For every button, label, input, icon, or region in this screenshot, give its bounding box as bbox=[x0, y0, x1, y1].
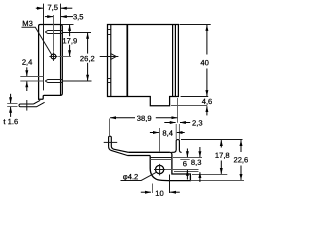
svg-text:2,4: 2,4 bbox=[22, 58, 33, 67]
svg-text:38,9: 38,9 bbox=[137, 114, 152, 123]
svg-text:40: 40 bbox=[200, 58, 208, 67]
svg-text:3,5: 3,5 bbox=[73, 12, 84, 21]
svg-text:22,6: 22,6 bbox=[233, 155, 248, 164]
svg-text:2,3: 2,3 bbox=[192, 119, 203, 128]
svg-text:17,8: 17,8 bbox=[215, 151, 230, 160]
svg-text:17,9: 17,9 bbox=[62, 36, 77, 45]
svg-text:φ4.2: φ4.2 bbox=[123, 172, 138, 181]
svg-text:t 1.6: t 1.6 bbox=[3, 117, 18, 126]
svg-text:7,5: 7,5 bbox=[47, 3, 58, 12]
svg-text:4,6: 4,6 bbox=[202, 97, 213, 106]
svg-text:10: 10 bbox=[155, 189, 163, 198]
svg-text:M3: M3 bbox=[22, 19, 33, 28]
svg-text:6: 6 bbox=[183, 159, 187, 168]
svg-text:8,3: 8,3 bbox=[191, 158, 202, 167]
svg-text:26,2: 26,2 bbox=[80, 54, 95, 63]
svg-text:8,4: 8,4 bbox=[162, 129, 173, 138]
